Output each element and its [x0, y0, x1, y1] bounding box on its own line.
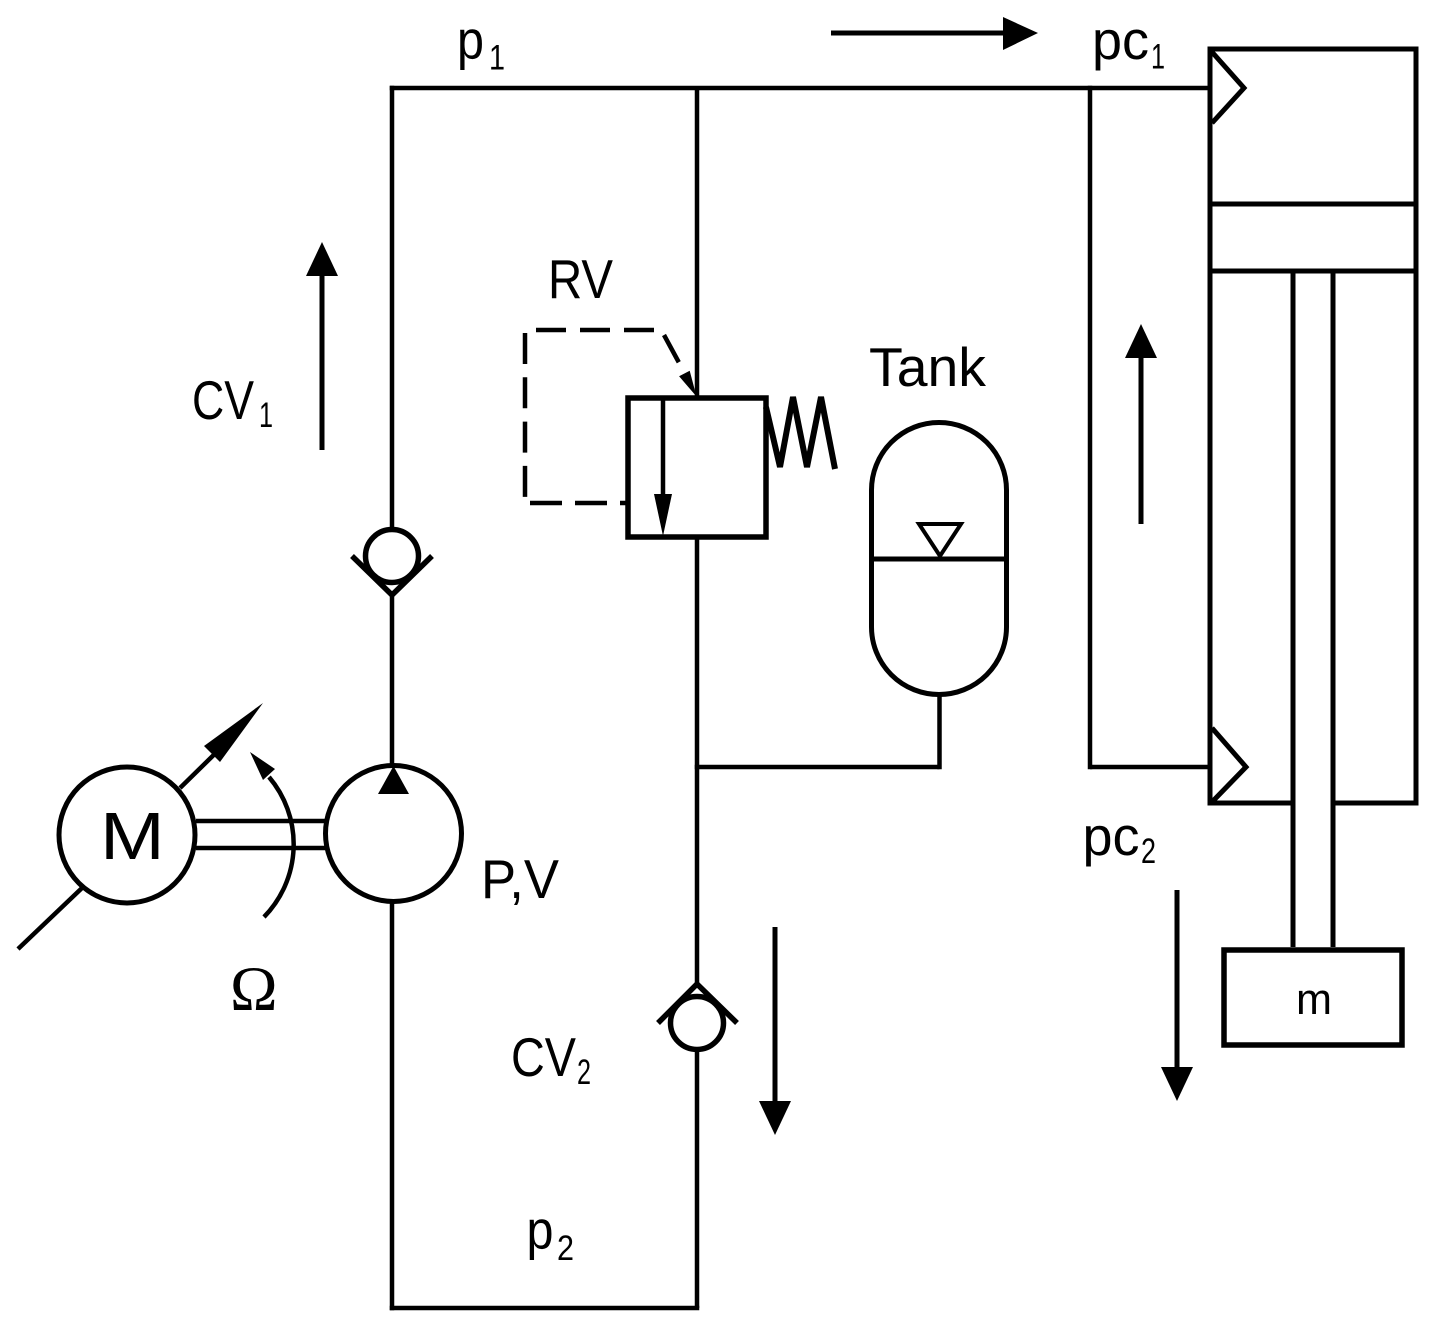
wire middle vertical (RV to CV2) [695, 537, 700, 985]
shaft lower line [196, 846, 327, 851]
svg-text:pc: pc [1083, 805, 1140, 867]
piston rod [1293, 271, 1333, 950]
wire tank stem vertical [937, 695, 942, 769]
variable arrow head [204, 703, 263, 762]
svg-text:2: 2 [577, 1053, 591, 1092]
pump flow triangle [378, 766, 409, 794]
flow arrow pc2 down [1161, 890, 1193, 1101]
svg-text:p: p [457, 9, 484, 71]
relief valve RV body [628, 398, 766, 537]
cylinder port chevron bottom [1212, 728, 1246, 802]
wire p1 top horizontal [390, 86, 1210, 91]
cylinder divider 1 (piston top) [1210, 202, 1416, 207]
flow arrow pc1 up [1125, 324, 1157, 524]
motor M circle [59, 767, 195, 903]
check valve CV2 [658, 984, 737, 1050]
motor label M [100, 799, 165, 874]
svg-text:Tank: Tank [869, 336, 986, 398]
svg-text:m: m [1296, 975, 1332, 1024]
cylinder divider 2 (piston bottom) [1210, 269, 1416, 274]
pump P,V circle [326, 766, 462, 902]
pilot arrow head [679, 371, 696, 397]
relief valve spring [766, 397, 835, 469]
mass block m [1224, 950, 1402, 1045]
svg-text:Ω: Ω [230, 953, 278, 1024]
wire p2 bottom horizontal [390, 1306, 700, 1311]
svg-text:pc: pc [1092, 9, 1149, 71]
pilot dashed top [536, 328, 656, 333]
tank gas triangle [919, 524, 961, 556]
svg-text:1: 1 [489, 39, 505, 78]
svg-text:p: p [527, 1199, 554, 1261]
wire middle vertical lower (CV2 to p2) [695, 1052, 700, 1308]
variable arrow lower segment [18, 888, 82, 949]
rotation arc arrow head [250, 752, 275, 780]
svg-text:CV: CV [511, 1026, 576, 1088]
relief valve inner flow line [661, 400, 666, 500]
svg-text:RV: RV [548, 248, 613, 310]
svg-text:2: 2 [1141, 832, 1156, 871]
relief valve inner flow arrow head [654, 494, 672, 536]
wire middle vertical upper (p1 to RV) [695, 88, 700, 398]
pilot dashed left [523, 333, 528, 503]
wire left vertical upper (p1 to CV1) [390, 86, 395, 530]
pilot dashed diagonal [664, 335, 690, 383]
svg-text:M: M [100, 799, 165, 874]
flow arrow CV2 down [759, 927, 791, 1135]
svg-text:1: 1 [1151, 38, 1165, 77]
svg-text:2: 2 [557, 1229, 574, 1268]
check valve CV1 [352, 530, 432, 596]
svg-text:1: 1 [259, 396, 273, 435]
shaft upper line [196, 819, 327, 824]
wire pc1 vertical [1088, 86, 1093, 770]
svg-text:CV: CV [192, 369, 254, 431]
accumulator tank capsule [872, 423, 1007, 695]
variable arrow upper segment [180, 739, 230, 788]
cylinder barrel [1210, 49, 1416, 803]
cylinder port chevron top [1212, 52, 1244, 123]
wire left vertical lower (pump to p2) [390, 902, 395, 1310]
pilot dashed bottom [530, 501, 628, 506]
flow arrow top (to pc1) [831, 17, 1038, 50]
flow arrow CV1 up [306, 242, 338, 450]
svg-text:P,V: P,V [481, 848, 559, 910]
tank divider line [869, 557, 1009, 562]
wire tank branch horizontal [695, 765, 940, 770]
wire pc2 horizontal [1090, 765, 1212, 770]
rotation arc [264, 777, 294, 917]
wire left vertical middle (CV1 to pump) [390, 593, 395, 765]
